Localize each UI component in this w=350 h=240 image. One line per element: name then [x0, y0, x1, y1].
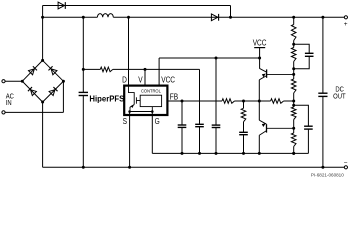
svg-text:VCC: VCC	[253, 38, 267, 48]
svg-text:FB: FB	[170, 92, 178, 102]
svg-text:+: +	[344, 21, 348, 28]
svg-text:S: S	[123, 116, 127, 126]
svg-text:D: D	[122, 75, 127, 85]
svg-text:IN: IN	[6, 100, 12, 108]
svg-text:HiperPFS: HiperPFS	[89, 94, 124, 103]
svg-text:CONTROL: CONTROL	[141, 88, 161, 93]
svg-text:G: G	[155, 116, 160, 126]
svg-text:VCC: VCC	[161, 75, 175, 85]
svg-text:PI-6821-060810: PI-6821-060810	[311, 173, 344, 178]
svg-text:OUT: OUT	[333, 93, 345, 101]
svg-text:V: V	[138, 75, 142, 85]
svg-text:−: −	[344, 160, 348, 167]
